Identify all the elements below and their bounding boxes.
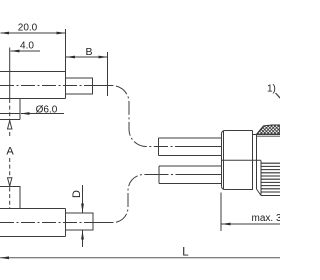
extension line x=9.7 (4.0 dim / body feature) [9, 48, 11, 99]
sensing tip top view: face line [0, 113, 20, 115]
collar line [256, 135, 258, 190]
svg-text:max. 3: max. 3 [252, 213, 281, 224]
hidden centerline in head [9, 188, 11, 209]
cable 2 centerline [159, 174, 222, 176]
dimension 20.0 right arrow [57, 32, 66, 35]
knurl bottom edge [261, 195, 280, 197]
cable curve from side view [95, 175, 159, 223]
dimension 4.0 line [11, 50, 41, 52]
extension line x=107.5 (B dim right) [107, 52, 109, 96]
hidden centerline through tip (A dim upper) [9, 99, 11, 137]
svg-text:L: L [182, 247, 189, 259]
cable curve from top view [95, 86, 159, 147]
knurl lines [261, 163, 280, 192]
max dim line [221, 223, 280, 225]
dimension 20.0 left arrow [0, 32, 9, 35]
hollow arrow A down [8, 178, 12, 186]
backshell parting line [222, 159, 262, 161]
svg-text:A: A [6, 146, 14, 158]
collar top edge [253, 134, 257, 136]
side view body: bottom edge [0, 236, 66, 238]
knurled dome (coupling nut top) [257, 125, 281, 134]
centerline side view [0, 222, 113, 224]
backshell inner left edge [223, 131, 225, 190]
hollow arrow A up [8, 121, 12, 129]
dimension D lower line [82, 231, 84, 248]
side view head rect [0, 187, 20, 209]
svg-text:Ø6.0: Ø6.0 [36, 105, 58, 116]
cable 2 outline [159, 166, 222, 184]
dimension D lower arrow [81, 231, 84, 240]
connector backshell [222, 131, 253, 190]
dimension D upper arrow [81, 204, 84, 213]
leader arrow dia 6.0 [21, 112, 30, 115]
svg-text:4.0: 4.0 [20, 41, 34, 52]
sensing tip top view: right edge [19, 99, 21, 120]
cable 1 outline [159, 138, 222, 156]
svg-text:D: D [71, 190, 83, 198]
sensor body top view: top edge [0, 71, 66, 73]
svg-text:B: B [85, 46, 92, 58]
knurl chamfer [257, 189, 262, 196]
centerline top view [0, 85, 112, 87]
dimension 4.0 arrow [11, 50, 20, 53]
max dim arrow [222, 223, 231, 226]
dimension D upper line [82, 185, 84, 213]
hidden centerline (A dim lower) [9, 158, 11, 186]
dome base line 1 [256, 133, 281, 135]
leader line dia 6.0 [21, 113, 64, 115]
cable 1 centerline [159, 146, 222, 148]
side view body: right edge [65, 209, 67, 237]
dimension L line [0, 257, 280, 259]
dimension 20.0 line [1, 32, 66, 34]
max dim extension line [220, 193, 222, 232]
dimension L arrow [0, 256, 9, 259]
extension line x=65.5 (20.0 and B dims, body right edge) [65, 29, 67, 99]
sensor nose top view [66, 78, 93, 94]
dimension B right arrow [99, 56, 108, 59]
svg-text:20.0: 20.0 [18, 23, 38, 34]
dimension B line [66, 56, 108, 58]
dimension B left arrow [66, 56, 75, 59]
sensor body top view: bottom edge [0, 98, 66, 100]
svg-text:1): 1) [267, 84, 276, 95]
sensing tip top view: bottom edge [0, 119, 20, 121]
leader line for note 1) [276, 93, 282, 99]
dome base line 2 [257, 135, 281, 137]
side view nose [66, 213, 94, 230]
knurl lower left edge [260, 161, 262, 196]
side view body: top edge [0, 208, 66, 210]
